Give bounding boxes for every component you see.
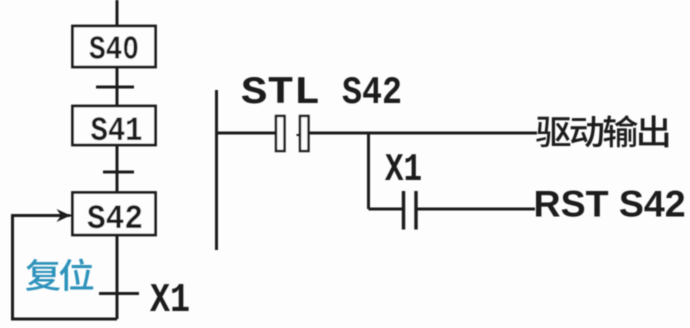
reset label char 复: [26, 259, 60, 291]
svg-text:X1: X1: [385, 148, 422, 192]
wire: loop bottom + left side back up: [13, 216, 118, 320]
wire: rung 2 left: [369, 208, 404, 211]
X1 contact right bar: [414, 191, 417, 230]
svg-text:S41: S41: [91, 113, 143, 151]
wire: S41 to S42: [116, 145, 119, 193]
STL contact right bar: [300, 116, 309, 151]
svg-text:S42: S42: [87, 201, 143, 239]
svg-text:RST S42: RST S42: [534, 183, 686, 225]
svg-text:X1: X1: [150, 278, 190, 324]
wire: rung 2 right: [416, 208, 535, 211]
X1 contact left bar: [402, 191, 405, 230]
arrowhead into S42: [57, 209, 71, 222]
wire: rung 1 left: [217, 132, 277, 135]
ladder power rail: [215, 90, 218, 250]
transition crossbar 1: [96, 86, 134, 89]
state box S42: [73, 193, 156, 236]
reset label char 位: [60, 259, 94, 291]
wire: below S42 down to loop corner: [116, 235, 119, 319]
output label char 驱: [536, 117, 570, 147]
STL contact nub: [297, 134, 301, 136]
wire: S40 to S41: [116, 67, 119, 106]
svg-text:S42: S42: [342, 71, 402, 115]
transition crossbar 3 (X1): [99, 292, 139, 295]
output label char 动: [571, 116, 603, 147]
transition crossbar 2: [103, 171, 134, 174]
wire: top entry into S40: [116, 0, 119, 26]
output label char 输: [604, 115, 638, 147]
wire: arrow stub into S42: [70, 215, 73, 217]
state box S41: [73, 106, 156, 145]
svg-text:STL: STL: [241, 71, 320, 115]
wire: rung 1 right: [309, 132, 538, 135]
STL contact left bar: [276, 116, 285, 151]
output label char 出: [639, 115, 668, 147]
state box S40: [73, 26, 156, 67]
wire: branch down: [367, 133, 370, 209]
